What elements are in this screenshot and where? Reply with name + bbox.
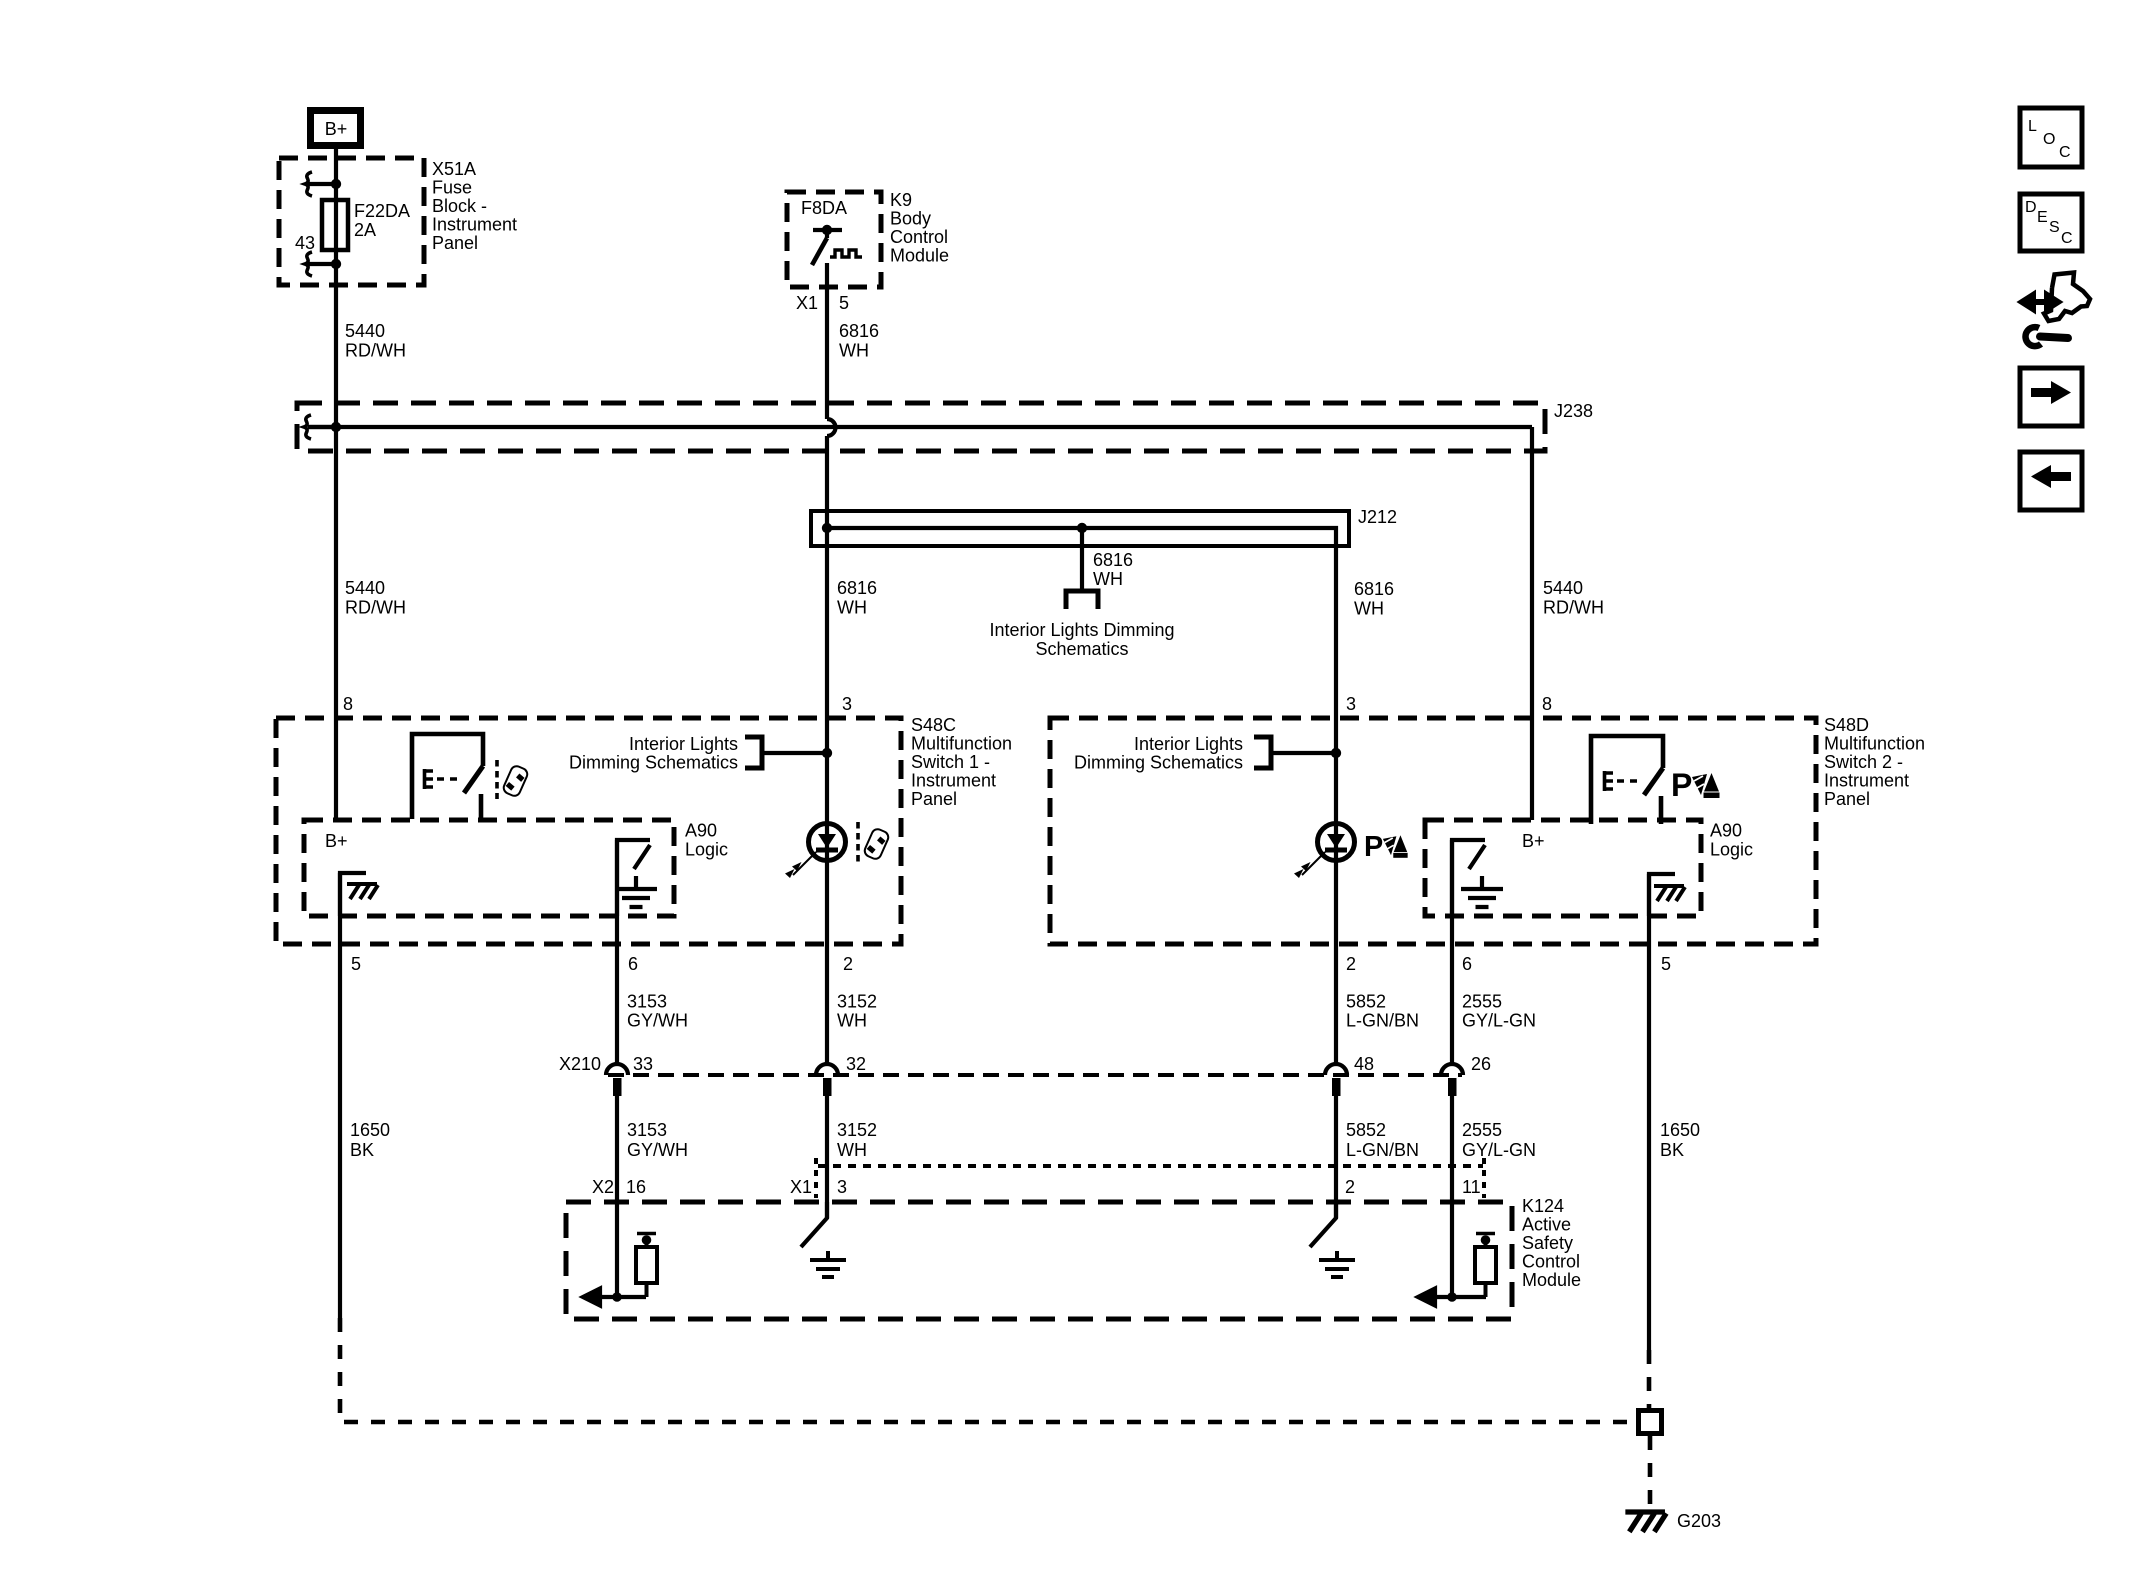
svg-text:5440: 5440 [345,578,385,598]
svg-text:S48D: S48D [1824,715,1869,735]
wire 5440 RD/WH B+ to S48C pin 8 [334,149,338,820]
off-page tab Interior Lights Dimming (S48D) [1254,737,1341,768]
svg-text:Control: Control [890,227,948,247]
wire label 3153 GY/WH upper [627,992,688,1031]
svg-text:Instrument: Instrument [1824,771,1909,791]
mechanical link + door icon at LED S48C [856,822,860,863]
door switch symbol S48C [412,734,497,819]
svg-text:6816: 6816 [837,578,877,598]
svg-text:X2: X2 [592,1177,614,1197]
multifunction switch S48D dashed box [1050,718,1816,944]
off-page tab Interior Lights Dimming (S48C) [745,737,832,768]
wire label 6816 WH mid right [1354,579,1394,619]
component label X51A Fuse Block - Instrument Panel [432,159,517,253]
ground G203 [1625,1511,1721,1532]
fuse F22DA 2A [322,200,348,250]
svg-text:Instrument: Instrument [911,771,996,791]
sidebar DESC button [2020,194,2082,251]
svg-text:WH: WH [1093,569,1123,589]
svg-text:B+: B+ [325,119,348,139]
wire label 2555 GY/L-GN lower [1462,1120,1536,1160]
splice pack J238 dashed box [297,403,1545,451]
component label K124 Active Safety Control Module [1522,1196,1581,1290]
svg-text:GY/L-GN: GY/L-GN [1462,1140,1536,1160]
svg-text:Logic: Logic [1710,840,1753,860]
wire label 5852 L-GN/BN lower [1346,1120,1419,1160]
fuse value label F22DA 2A [354,201,410,240]
connector terminal 32 [816,1054,866,1096]
svg-text:Interior Lights: Interior Lights [629,734,738,754]
text Interior Lights Dimming Schematics (middle) [989,620,1174,659]
svg-text:WH: WH [1354,599,1384,619]
component label S48C Multifunction Switch 1 - Instrument Panel [911,715,1012,809]
svg-text:F22DA: F22DA [354,201,410,221]
svg-text:3: 3 [842,694,852,714]
sidebar LOC button [2020,108,2082,167]
svg-text:WH: WH [837,1011,867,1031]
svg-text:Multifunction: Multifunction [911,734,1012,754]
dashed wire splice to G203 [1648,1436,1653,1507]
svg-text:G203: G203 [1677,1511,1721,1531]
park assist icon at LED S48D [1364,831,1408,863]
svg-text:S48C: S48C [911,715,956,735]
junction dot J212 middle [1077,523,1087,533]
svg-text:Block -: Block - [432,196,487,216]
svg-text:X210: X210 [559,1054,601,1074]
svg-text:Module: Module [1522,1270,1581,1290]
svg-text:Body: Body [890,209,931,229]
svg-text:3: 3 [1346,694,1356,714]
svg-text:X51A: X51A [432,159,476,179]
wire 5440 RD/WH right branch J238 to S48D pin 8 [1530,427,1534,820]
svg-text:8: 8 [343,694,353,714]
svg-text:2555: 2555 [1462,992,1502,1012]
svg-text:5440: 5440 [345,321,385,341]
wire label 6816 WH mid left [837,578,877,618]
svg-text:RD/WH: RD/WH [1543,598,1604,618]
connector terminal top of fuse [305,172,341,196]
wire label 5852 L-GN/BN upper [1346,992,1419,1031]
svg-text:WH: WH [837,598,867,618]
svg-text:3153: 3153 [627,992,667,1012]
wire label 6816 WH middle [1093,550,1133,589]
power symbol B+ [311,111,361,146]
wire 1650 BK left [338,873,342,1318]
K124 input arrow and resistor pin 11 [1418,1234,1496,1306]
splice terminal left of J238 [304,415,336,439]
connector terminal bottom of fuse [305,252,341,276]
connector X1 dotted line [816,1158,1484,1198]
svg-text:Interior Lights: Interior Lights [1134,734,1243,754]
sidebar next arrow button [2020,368,2082,426]
svg-text:32: 32 [846,1054,866,1074]
wire 3153 GY/WH upper segment [615,840,619,1064]
svg-text:Schematics: Schematics [1035,639,1128,659]
label A90 Logic right [1710,821,1753,860]
svg-text:43: 43 [295,233,315,253]
splice node square [1639,1411,1662,1434]
sidebar back arrow button [2020,452,2082,510]
text Interior Lights Dimming Schematics (S48C) [569,734,738,773]
svg-text:F8DA: F8DA [801,198,847,218]
svg-text:6: 6 [628,954,638,974]
active safety control module K124 dashed box [566,1202,1512,1319]
multifunction switch S48C dashed box [276,718,901,944]
svg-text:A90: A90 [685,821,717,841]
wire 3153 GY/WH lower segment [615,1094,619,1295]
label X1 3 [790,1177,847,1197]
pin label X1 5 [796,293,849,313]
svg-text:11: 11 [1462,1177,1481,1197]
park assist icon at S48D switch [1671,767,1720,803]
svg-text:Interior Lights Dimming: Interior Lights Dimming [989,620,1174,640]
LED indicator S48C [785,824,846,879]
svg-text:1650: 1650 [1660,1120,1700,1140]
svg-text:Module: Module [890,246,949,266]
svg-text:3: 3 [837,1177,847,1197]
wire 6816 WH middle drop [1080,528,1084,591]
svg-text:Panel: Panel [432,233,478,253]
svg-text:L-GN/BN: L-GN/BN [1346,1140,1419,1160]
junction dot 5440/J238 [331,422,341,432]
wire label 1650 BK left [350,1120,390,1160]
logic driver switch to ground pin 6 (A90 right) [1452,840,1503,916]
svg-text:Active: Active [1522,1215,1571,1235]
svg-text:L-GN/BN: L-GN/BN [1346,1011,1419,1031]
wire label 3152 WH lower [837,1120,877,1160]
LED indicator S48D [1294,824,1355,879]
svg-text:L: L [2028,118,2037,135]
svg-text:BK: BK [1660,1140,1684,1160]
logic driver switch to ground pin 6 (A90 left) [615,840,657,916]
svg-text:5440: 5440 [1543,578,1583,598]
svg-text:B+: B+ [1522,831,1545,851]
sidebar harness connector icon [2022,273,2090,347]
svg-text:Dimming Schematics: Dimming Schematics [1074,753,1243,773]
svg-text:8: 8 [1542,694,1552,714]
svg-text:6816: 6816 [1354,579,1394,599]
svg-text:1650: 1650 [350,1120,390,1140]
wire 6816 WH right branch to S48D pin 3 [1334,546,1338,753]
wire 2555 GY/L-GN lower segment [1450,1094,1454,1295]
svg-text:5: 5 [839,293,849,313]
svg-text:J238: J238 [1554,401,1593,421]
svg-text:2: 2 [843,954,853,974]
svg-text:WH: WH [839,341,869,361]
K124 input arrow and resistor pin 16 [583,1234,657,1306]
wire 2555 GY/L-GN upper segment [1450,840,1454,1064]
wire 6816 WH K9 to J212 [825,436,829,528]
wire label 2555 GY/L-GN upper [1462,992,1536,1031]
svg-text:5852: 5852 [1346,992,1386,1012]
svg-text:33: 33 [633,1054,653,1074]
svg-text:X1: X1 [796,293,818,313]
svg-text:O: O [2043,131,2055,148]
svg-text:26: 26 [1471,1054,1491,1074]
connector terminal 33 [606,1054,653,1096]
svg-text:Logic: Logic [685,840,728,860]
K124 switch to ground pin 2 [1310,1202,1355,1277]
svg-text:Fuse: Fuse [432,178,472,198]
door switch symbol S48D [1591,736,1663,824]
svg-text:5: 5 [351,954,361,974]
wire 1650 BK right dashed run to splice [1647,1350,1652,1408]
svg-text:C: C [2059,144,2071,161]
svg-text:48: 48 [1354,1054,1374,1074]
svg-text:RD/WH: RD/WH [345,341,406,361]
svg-text:16: 16 [626,1177,646,1197]
svg-text:6816: 6816 [839,321,879,341]
svg-text:Switch 2 -: Switch 2 - [1824,752,1903,772]
svg-text:RD/WH: RD/WH [345,598,406,618]
case ground with pin 5 wire (A90 right) [1649,874,1685,916]
svg-text:5: 5 [1661,954,1671,974]
svg-text:GY/WH: GY/WH [627,1140,688,1160]
wire label 1650 BK right [1660,1120,1700,1160]
svg-text:3153: 3153 [627,1120,667,1140]
fuse block X51A dashed box [279,158,424,285]
case ground with pin 5 wire (A90 left) [340,873,378,916]
wire label 6816 WH upper [839,321,879,361]
svg-text:C: C [2061,230,2073,247]
driver F8DA switch symbol [812,225,862,265]
svg-text:J212: J212 [1358,507,1397,527]
wire 3152 WH upper segment [825,753,829,1064]
svg-text:X1: X1 [790,1177,812,1197]
component label K9 Body Control Module [890,190,949,266]
svg-text:Panel: Panel [1824,789,1870,809]
svg-text:5852: 5852 [1346,1120,1386,1140]
wire 1650 BK right [1647,874,1651,1350]
svg-text:2A: 2A [354,220,376,240]
svg-text:Switch 1 -: Switch 1 - [911,752,990,772]
svg-text:6816: 6816 [1093,550,1133,570]
connector terminal 48 [1325,1054,1374,1096]
wire label 3153 GY/WH lower [627,1120,688,1160]
svg-text:Multifunction: Multifunction [1824,734,1925,754]
splice J212 solid box [811,511,1349,546]
wire 6816 WH left J212 to S48C pin 3 [825,528,829,753]
svg-text:2: 2 [1346,954,1356,974]
connector X210 dashed line [608,1073,1462,1077]
label A90 Logic left [685,821,728,860]
wire label 3152 WH upper [837,992,877,1031]
door icon S48C switch [502,764,529,797]
svg-text:3152: 3152 [837,992,877,1012]
logic box A90 right dashed [1425,820,1701,916]
logic box A90 left dashed [304,820,674,916]
wire 6816 WH from K9 pin 5 [825,263,829,419]
svg-text:A90: A90 [1710,821,1742,841]
svg-text:6: 6 [1462,954,1472,974]
wire label 5440 RD/WH upper [345,321,406,361]
svg-text:K9: K9 [890,190,912,210]
svg-text:Safety: Safety [1522,1233,1573,1253]
svg-text:3152: 3152 [837,1120,877,1140]
wire label 5440 RD/WH mid right [1543,578,1604,618]
wire 5852 L-GN/BN upper segment [1334,753,1338,1064]
svg-text:GY/WH: GY/WH [627,1011,688,1031]
svg-text:S: S [2049,219,2060,236]
svg-text:Control: Control [1522,1252,1580,1272]
J238 bus wire [308,425,1532,429]
svg-text:Dimming Schematics: Dimming Schematics [569,753,738,773]
wire label 5440 RD/WH mid left [345,578,406,618]
label X2 16 [592,1177,646,1197]
svg-text:B+: B+ [325,831,348,851]
svg-text:WH: WH [837,1140,867,1160]
component label S48D Multifunction Switch 2 - Instrument Panel [1824,715,1925,809]
wire 5852 L-GN/BN lower segment [1334,1094,1338,1218]
junction dot J212 left [822,523,832,533]
off-page tab to Interior Lights Dimming Schematics (middle) [1066,591,1098,609]
svg-text:K124: K124 [1522,1196,1564,1216]
body control module K9 dashed box [787,192,881,287]
svg-text:Panel: Panel [911,789,957,809]
connector terminal 26 [1441,1054,1491,1096]
svg-text:2: 2 [1345,1177,1355,1197]
K124 switch to ground pin 3 [801,1202,846,1277]
svg-text:BK: BK [350,1140,374,1160]
wire 1650 BK left dashed run to splice [340,1318,1636,1422]
text Interior Lights Dimming Schematics (S48D) [1074,734,1243,773]
crossover hop of 6816 over J238 [827,419,836,436]
wire 3152 WH lower segment [825,1094,829,1218]
svg-text:GY/L-GN: GY/L-GN [1462,1011,1536,1031]
svg-text:D: D [2025,199,2037,216]
svg-text:2555: 2555 [1462,1120,1502,1140]
svg-text:E: E [2037,209,2048,226]
svg-text:Instrument: Instrument [432,215,517,235]
J212 bus wire [827,528,1336,546]
